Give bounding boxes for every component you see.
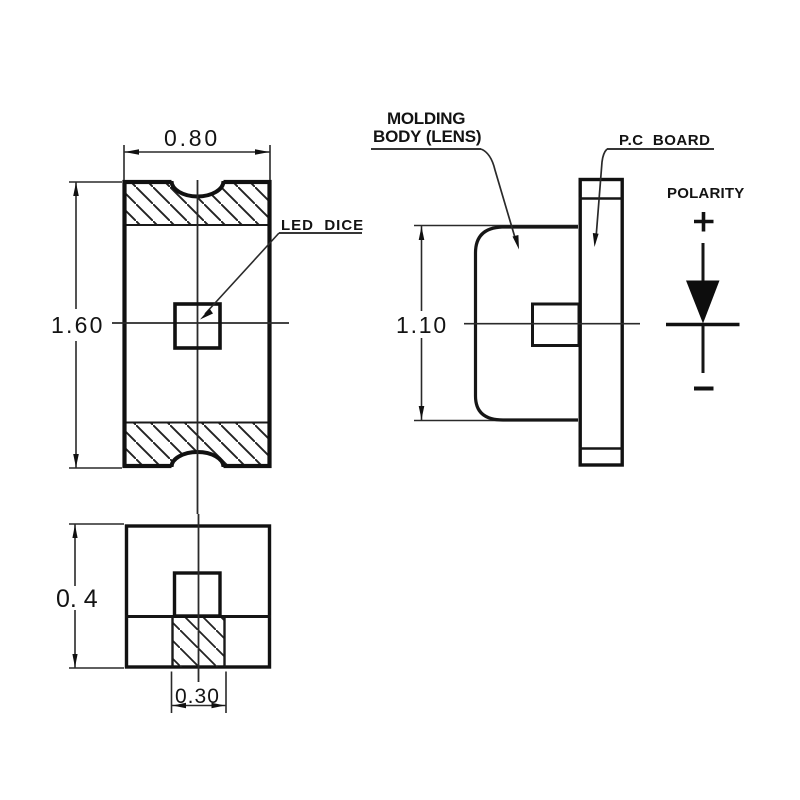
dimension 1.60 bottom arrow [73, 454, 79, 468]
dimension 0.30 right extension line [225, 672, 227, 714]
bottom hatched electrode band (top view) [124, 423, 270, 467]
MOLDING leader arrowhead [513, 235, 520, 250]
dimension 1.10 top extension line [414, 225, 578, 227]
top view body outline [125, 182, 270, 466]
dimension 0.80 left arrow [125, 149, 140, 155]
dimension 0.30 left extension line [171, 672, 173, 714]
svg-text:0. 4: 0. 4 [56, 585, 98, 613]
svg-text:1.60: 1.60 [51, 312, 105, 338]
dimension 0.4 bottom arrow [72, 654, 77, 668]
top notch arc [172, 181, 224, 196]
side view electrode rectangle [533, 304, 580, 346]
dimension 0.80 extension line left [123, 145, 125, 180]
bottom view vertical centerline [198, 514, 200, 682]
top view horizontal centerline [112, 322, 289, 324]
bottom notch arc [172, 452, 224, 467]
dimension 0.30 line [172, 705, 226, 707]
dimension 1.10 line lower segment [421, 338, 423, 420]
diode cathode bar [666, 323, 740, 326]
dimension 1.10 bottom arrow [419, 406, 425, 420]
top view vertical centerline [197, 180, 199, 514]
bottom view hatched square fill [173, 618, 225, 667]
top notch white cutout [172, 177, 224, 196]
dimension 1.60 top arrow [73, 183, 79, 197]
molding body (lens) outline [476, 227, 579, 420]
svg-text:P.C BOARD: P.C BOARD [619, 132, 710, 149]
polarity minus sign [694, 387, 714, 391]
polarity plus sign vertical [702, 212, 706, 232]
bottom band inner boundary line [124, 422, 270, 424]
svg-text:1.10: 1.10 [396, 312, 448, 338]
top hatched electrode band (top view) [124, 181, 270, 225]
svg-text:0.80: 0.80 [164, 125, 220, 151]
MOLDING leader line [481, 149, 516, 241]
dimension 0.30 left arrow [173, 703, 187, 708]
dimension 0.4 top extension line [69, 523, 124, 525]
P.C BOARD leader line [596, 149, 607, 238]
dimension 0.4 bottom extension line [69, 667, 124, 669]
P.C board rectangle [580, 180, 622, 466]
bottom view hatched square left edge [171, 617, 173, 668]
dimension 0.4 top arrow [72, 525, 77, 539]
dimension 0.4 line upper segment [74, 524, 76, 586]
P.C board inner bottom line [579, 447, 623, 450]
MOLDING label underline [371, 148, 481, 150]
side view horizontal centerline [464, 323, 640, 325]
bottom view divider line [125, 615, 271, 618]
dimension 1.60 bottom extension line [69, 467, 122, 469]
dimension 0.30 right arrow [212, 703, 226, 708]
svg-text:0.30: 0.30 [175, 685, 220, 708]
LED DICE leader line [205, 233, 279, 314]
svg-text:LED DICE: LED DICE [281, 217, 364, 234]
bottom view hatched square right edge [223, 617, 225, 668]
diode cathode lead line [702, 326, 705, 373]
bottom view body outline [127, 526, 270, 667]
P.C BOARD label underline [607, 148, 714, 150]
polarity plus sign horizontal [694, 220, 714, 224]
LED DICE leader arrowhead [200, 309, 213, 320]
dimension 0.80 line [124, 151, 270, 153]
diode triangle [686, 281, 720, 324]
dimension 0.80 extension line right [269, 145, 271, 180]
dimension 0.80 right arrow [255, 149, 270, 155]
LED DICE label underline [279, 232, 362, 234]
dimension 1.60 top extension line [69, 181, 122, 183]
svg-text:MOLDING: MOLDING [387, 109, 465, 128]
LED dice square [175, 304, 220, 348]
dimension 1.10 top arrow [419, 227, 425, 241]
bottom view electrode square [175, 573, 221, 616]
dimension 1.10 line upper segment [421, 226, 423, 311]
bottom notch white cutout [172, 452, 224, 471]
svg-text:BODY (LENS): BODY (LENS) [373, 127, 481, 146]
dimension 1.10 bottom extension line [414, 420, 510, 422]
dimension 1.60 line upper segment [75, 182, 77, 309]
dimension 1.60 line lower segment [75, 341, 77, 468]
P.C board inner top line [579, 197, 623, 200]
top band inner boundary line [124, 224, 270, 226]
svg-text:POLARITY: POLARITY [667, 185, 744, 202]
dimension 0.4 line lower segment [74, 610, 76, 668]
diode anode lead line [702, 243, 705, 284]
P.C BOARD leader arrowhead [593, 233, 599, 247]
